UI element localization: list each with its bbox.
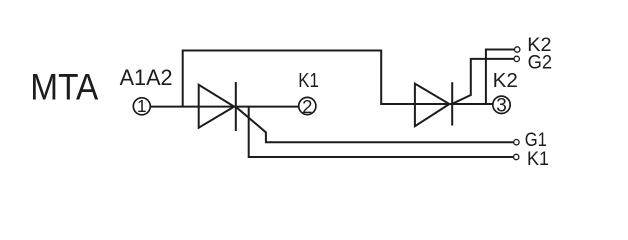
wire main left (terminal 1 to terminal 2): [150, 106, 298, 108]
terminal K1 small circle: [514, 154, 519, 159]
terminal K2 small circle: [515, 47, 520, 52]
terminal 3 circle: [493, 96, 510, 113]
terminal 2 circle: [299, 97, 316, 114]
svg-text:3: 3: [496, 96, 507, 117]
svg-text:2: 2: [302, 96, 312, 117]
terminal G1 small circle: [514, 140, 519, 145]
svg-text:K2: K2: [493, 70, 518, 92]
thyristor V2 triangle: [415, 84, 450, 127]
terminal 1 circle: [133, 98, 150, 115]
thyristor V2 gate lead, wire to G2: [452, 59, 514, 104]
wire aux cathode to K2: [486, 50, 515, 105]
thyristor V1 cathode bar: [235, 82, 237, 131]
wire top rail (anode jumper): [183, 51, 493, 107]
thyristor V1 gate lead, wire to G1: [236, 107, 514, 142]
svg-text:A1A2: A1A2: [120, 65, 173, 90]
wire aux cathode to K1: [249, 107, 513, 157]
svg-text:G2: G2: [528, 52, 553, 73]
svg-text:1: 1: [137, 96, 147, 116]
svg-text:K1: K1: [298, 70, 319, 92]
thyristor V2 cathode bar: [451, 82, 453, 125]
thyristor V1 triangle: [199, 85, 235, 128]
svg-text:K1: K1: [527, 148, 549, 170]
terminal G2 small circle: [514, 56, 519, 61]
svg-text:MTA: MTA: [30, 67, 98, 108]
